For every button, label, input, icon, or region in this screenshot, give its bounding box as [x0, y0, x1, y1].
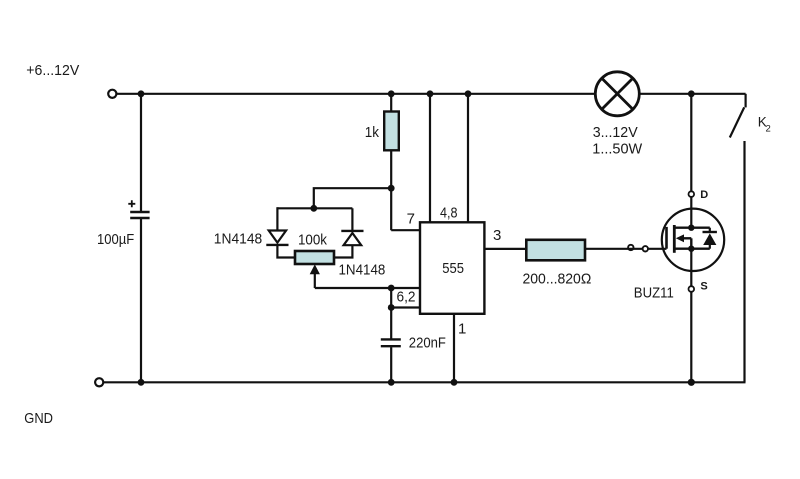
node bottom cap — [138, 379, 145, 386]
node Q1 drain — [688, 225, 694, 231]
node bottom pin1 — [451, 379, 458, 386]
wire source lower — [690, 249, 692, 287]
svg-text:1N4148: 1N4148 — [339, 262, 386, 279]
wire top rail left — [117, 93, 595, 95]
wire junction down — [390, 288, 392, 339]
svg-text:100k: 100k — [298, 232, 327, 249]
wire pin 7 — [391, 229, 420, 231]
node diode top rail — [310, 205, 317, 212]
svg-text:1k: 1k — [365, 124, 380, 141]
wire 1k lower lead — [390, 150, 392, 230]
wire pin 3 — [484, 248, 526, 250]
Q1 body diode — [703, 228, 717, 249]
terminal D circle — [689, 191, 695, 197]
switch K2 blade — [730, 107, 744, 137]
potentiometer P1 100k — [295, 251, 334, 264]
wire R2 to gate — [585, 248, 667, 250]
Q1 body lead with arrow — [676, 234, 692, 248]
capacitor C1 plus sign — [128, 200, 135, 207]
wire cap2 lower lead — [390, 347, 392, 382]
svg-text:BUZ11: BUZ11 — [634, 285, 674, 302]
terminal GND circle — [95, 378, 103, 386]
svg-text:220nF: 220nF — [409, 335, 446, 352]
node bottom source — [688, 379, 695, 386]
svg-text:3: 3 — [493, 227, 501, 244]
switch K2 upper lead — [744, 94, 746, 108]
connector circle right — [643, 246, 648, 251]
bottom rail wire — [104, 381, 746, 383]
node 1k bottom — [388, 185, 395, 192]
wire node to diode network — [314, 188, 391, 208]
svg-text:GND: GND — [24, 410, 53, 427]
svg-text:7: 7 — [407, 210, 415, 227]
wire 1k upper lead — [390, 94, 392, 112]
wire cap lower lead — [140, 219, 142, 382]
svg-text:200...820Ω: 200...820Ω — [523, 271, 592, 288]
node drain top — [688, 90, 695, 97]
svg-text:1...50W: 1...50W — [592, 141, 643, 158]
wire pin 1 — [453, 314, 455, 383]
connector circle left — [628, 245, 633, 250]
capacitor C2 220nF plates — [381, 339, 401, 346]
svg-text:555: 555 — [442, 260, 464, 277]
diode D2 1N4148 (right, pointing up) — [341, 208, 363, 245]
wire left diode upper lead — [276, 207, 278, 230]
terminal S circle — [689, 286, 695, 292]
op-amp U1 555 timer box — [420, 222, 484, 313]
wire cap upper lead — [140, 94, 142, 211]
node Q1 source — [688, 246, 694, 252]
capacitor C1 plates — [130, 212, 149, 218]
wire drain into mosfet — [690, 197, 692, 228]
wire node to pin 2 — [391, 306, 420, 308]
wire pin 8 — [467, 94, 469, 223]
pot wiper arrow — [311, 266, 392, 289]
wire pot right to right diode — [334, 245, 352, 257]
node pin 8 top — [465, 90, 472, 97]
svg-text:1: 1 — [458, 320, 466, 337]
node cap top — [138, 90, 145, 97]
svg-text:3...12V: 3...12V — [593, 124, 638, 141]
svg-text:2: 2 — [766, 123, 771, 134]
svg-text:4,8: 4,8 — [440, 204, 458, 221]
Q1 gate bar — [665, 227, 668, 249]
wire diode top rail — [277, 207, 352, 209]
Q1 drain horizontal — [674, 226, 710, 228]
diode D1 1N4148 (left, pointing down) — [266, 231, 295, 258]
svg-text:S: S — [700, 281, 707, 293]
node wiper junction — [388, 285, 395, 292]
node cap2 junction — [388, 304, 395, 311]
transistor Q1 BUZ11 body circle — [662, 209, 724, 271]
svg-text:6,2: 6,2 — [397, 289, 416, 306]
svg-text:+6...12V: +6...12V — [26, 62, 79, 79]
svg-text:100µF: 100µF — [97, 231, 134, 248]
resistor R1 1k — [384, 112, 399, 151]
switch K2 lower lead — [743, 141, 745, 382]
svg-text:1N4148: 1N4148 — [214, 231, 262, 248]
Q1 channel bar — [673, 225, 676, 253]
wire pin 4 — [429, 94, 431, 223]
wire top rail right — [640, 93, 746, 95]
lamp LA1 — [595, 72, 639, 116]
terminal +V — [108, 90, 116, 98]
wire drain upper — [690, 94, 692, 192]
node bottom cap2 — [388, 379, 395, 386]
wire source to bottom rail — [690, 292, 692, 383]
svg-text:D: D — [700, 189, 708, 201]
node pin 4 top — [427, 90, 434, 97]
wire wiper to pin 6,2 — [391, 287, 420, 289]
Q1 source horizontal — [674, 247, 710, 249]
node 1k top — [388, 90, 395, 97]
resistor R2 200...820 — [526, 240, 585, 260]
